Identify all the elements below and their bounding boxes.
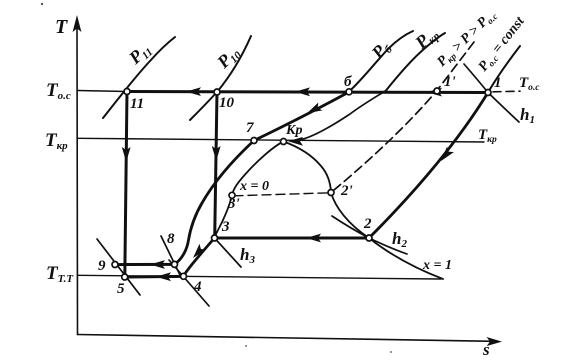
svg-text:x = 0: x = 0 xyxy=(239,179,269,194)
critical point kp xyxy=(281,139,287,145)
label P6 xyxy=(367,37,395,65)
saturation dome x=1 branch below 2 xyxy=(369,238,443,279)
svg-text:T: T xyxy=(55,16,68,38)
node 3 xyxy=(212,235,218,241)
svg-text:h3: h3 xyxy=(240,245,255,266)
node 10 xyxy=(214,89,220,95)
scan speck top left xyxy=(41,3,43,5)
isobar P kp upper branch xyxy=(386,33,445,91)
saturation dome left branch (kp to 3' to 3) xyxy=(215,142,284,239)
node 2' xyxy=(328,190,334,196)
isobar P10 through point 10 xyxy=(190,36,251,120)
node 6 xyxy=(346,89,352,95)
svg-text:5: 5 xyxy=(117,281,125,297)
isotherm line T o.c (thin, left of 11) xyxy=(78,91,128,92)
node 11 xyxy=(124,89,130,95)
process curve 3 to 4 (bold) xyxy=(184,238,215,276)
isobar P o.c above point 1 xyxy=(488,46,520,93)
svg-text:Pб: Pб xyxy=(367,37,395,65)
label P11 xyxy=(124,39,155,70)
arrow on 10-11 segment xyxy=(186,87,201,96)
isotherm line T t.t (thin) xyxy=(78,275,442,279)
node 9 xyxy=(112,262,118,268)
dashed tie line 3' to 2' xyxy=(234,193,331,196)
node 5 xyxy=(122,274,128,280)
svg-text:Tкр: Tкр xyxy=(478,127,497,145)
arrow on 8-9 line xyxy=(150,260,165,269)
svg-text:4: 4 xyxy=(193,279,202,295)
label P o.c = const xyxy=(476,13,529,75)
svg-text:11: 11 xyxy=(130,96,144,112)
node 1 xyxy=(485,90,491,96)
arrow on 1'-6 segment xyxy=(427,88,442,97)
isobar P kp lower branch to critical point xyxy=(292,91,386,142)
process line 8 to 9 (bold horizontal) xyxy=(115,263,175,266)
svg-text:s: s xyxy=(482,340,490,359)
T axis (vertical) xyxy=(73,15,82,335)
process line 1 to 11 (bold horizontal at T o.c) xyxy=(127,92,488,93)
saturation dome right branch (kp to 2') xyxy=(284,142,332,193)
svg-text:h1: h1 xyxy=(520,105,535,126)
node 7 xyxy=(251,138,257,144)
node 2 xyxy=(366,235,372,241)
process line 2 to 3 (bold horizontal) xyxy=(215,237,370,240)
arrow on 6-7 curve xyxy=(305,103,322,118)
svg-text:2: 2 xyxy=(363,216,372,232)
label P kp > P > P o.c xyxy=(434,7,499,71)
process line 10 to 3 (bold vertical) xyxy=(215,92,217,238)
process curve 7 to 8 (bold) xyxy=(175,141,255,265)
svg-text:P10: P10 xyxy=(212,42,244,74)
svg-text:8: 8 xyxy=(167,231,175,247)
svg-text:9: 9 xyxy=(98,258,106,274)
process line 4 to 5 (bold horizontal) xyxy=(125,275,184,279)
isenthalp h3 from point 3 xyxy=(215,238,242,267)
isenthalp through point 8 xyxy=(161,236,181,277)
process line 11 to 5 (bold vertical) xyxy=(125,92,127,278)
isenthalp h1 through point 1 xyxy=(464,64,519,122)
svg-text:1: 1 xyxy=(494,75,502,91)
dashed isobar through 1' (P kp > P > P o.c) xyxy=(331,42,474,193)
node 8 xyxy=(172,261,178,267)
scan speck bottom xyxy=(245,345,247,347)
isenthalp h2 through point 2 xyxy=(332,216,407,254)
svg-text:Tо.с: Tо.с xyxy=(46,80,71,102)
svg-text:3: 3 xyxy=(221,219,230,235)
svg-text:Tкр: Tкр xyxy=(45,130,68,152)
arrow on 3-4 curve xyxy=(190,244,206,261)
isotherm line T kp (thin) xyxy=(78,138,485,142)
isenthalp through points 9 and 5 xyxy=(97,239,140,295)
svg-text:3': 3' xyxy=(227,196,240,212)
svg-text:10: 10 xyxy=(219,95,235,111)
arrow on 11-5 line xyxy=(122,147,131,162)
svg-text:б: б xyxy=(344,74,352,90)
svg-text:TТ.Т: TТ.Т xyxy=(46,263,74,285)
process curve 1 to 2 (bold, along P o.c isobar) xyxy=(369,93,488,239)
arrow on 2-3 line xyxy=(306,234,321,243)
isenthalp through point 4 xyxy=(169,260,209,306)
scan speck bottom right xyxy=(390,351,392,353)
isotherm line T o.c dashed (right of 1) xyxy=(493,90,520,93)
svg-text:x = 1: x = 1 xyxy=(422,258,452,273)
svg-text:Tо.с: Tо.с xyxy=(519,75,540,93)
isobar P6 above point 6 xyxy=(349,31,413,92)
s axis (horizontal) xyxy=(78,335,503,347)
node 1' xyxy=(434,88,440,94)
svg-text:h2: h2 xyxy=(392,229,407,250)
isobar P11 through point 11 xyxy=(103,37,175,118)
arrow on 6-10 segment xyxy=(295,87,310,96)
label P kp xyxy=(410,22,442,54)
svg-text:Pкр: Pкр xyxy=(410,22,442,54)
arrow into critical point xyxy=(288,137,303,146)
node 3' xyxy=(229,192,235,198)
svg-text:7: 7 xyxy=(246,120,254,136)
label P10 xyxy=(212,42,244,74)
node 4 xyxy=(181,273,187,279)
arrow on 10-3 line xyxy=(212,146,221,161)
svg-text:P11: P11 xyxy=(124,39,155,70)
svg-text:1': 1' xyxy=(444,74,456,90)
process curve 6 to 7 (bold) xyxy=(254,92,349,141)
arrow on 4-5 line xyxy=(156,272,171,281)
svg-text:Кр: Кр xyxy=(285,123,303,138)
arrow on 1-2 curve xyxy=(438,147,454,164)
saturation dome 2' to 2 xyxy=(331,193,369,239)
svg-text:2': 2' xyxy=(340,183,353,199)
